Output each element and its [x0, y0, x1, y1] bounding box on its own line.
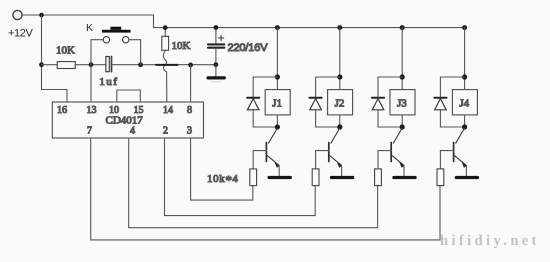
wire rail to relay J2 — [339, 28, 341, 90]
wire emitter Q1 down — [278, 166, 280, 176]
junction C2 top — [214, 25, 219, 30]
wire relay J4 to collector — [464, 115, 466, 127]
relay J2 — [328, 90, 353, 115]
transistor Q3 — [378, 129, 404, 168]
wire base Q3 to resistor — [377, 151, 379, 169]
svg-text:hifidiy.net: hifidiy.net — [440, 233, 540, 249]
svg-text:3: 3 — [187, 125, 192, 136]
junction collector Q2 — [337, 124, 342, 129]
wire relay J1 to collector — [276, 115, 278, 127]
switch K pushbutton — [91, 27, 141, 65]
wire diode D1 branch top — [253, 77, 277, 97]
resistor R2 10K pull-up — [162, 28, 169, 51]
junction C2 bottom — [214, 62, 219, 67]
wire pin3 routing — [191, 138, 253, 200]
transistor Q2 — [316, 129, 342, 168]
junction relay J1 top — [275, 74, 280, 79]
wire R1 to C1 — [75, 64, 106, 66]
relay J3 — [390, 90, 415, 115]
wire diode D4 branch bottom — [440, 110, 464, 127]
svg-text:CD4017: CD4017 — [106, 114, 144, 126]
ground Q4 — [456, 176, 477, 179]
junction collector Q1 — [275, 124, 280, 129]
resistor R5 10k — [375, 169, 382, 186]
wire base Q4 to resistor — [439, 151, 441, 169]
wire rail to relay J3 — [401, 28, 403, 90]
wire C2 to ground — [215, 65, 217, 77]
wire rail to relay J4 — [464, 28, 466, 90]
wire emitter Q4 down — [465, 166, 467, 176]
svg-text:15: 15 — [134, 105, 144, 116]
wire C1 right — [112, 64, 216, 66]
resistor R6 10k — [437, 169, 444, 186]
svg-text:220/16V: 220/16V — [228, 42, 269, 54]
relay driver cells — [247, 25, 477, 185]
resistor R4 10k — [312, 169, 319, 186]
wire relay J3 to collector — [401, 115, 403, 127]
op IC U1 CD4017 — [52, 102, 203, 138]
wire diode D1 branch bottom — [253, 110, 277, 127]
diode D3 — [372, 98, 384, 110]
diode D4 — [434, 98, 446, 110]
junction relay J3 top — [400, 74, 405, 79]
wire base Q2 to resistor — [315, 151, 317, 169]
terminal +12V — [13, 10, 22, 19]
svg-text:4: 4 — [130, 125, 135, 136]
wire R2 to pin14 wiggle — [163, 50, 166, 102]
wire pin7 routing — [91, 138, 440, 240]
junction button right node — [138, 62, 143, 67]
resistor R3 10k — [250, 169, 257, 186]
svg-text:8: 8 — [187, 105, 192, 116]
wire bold crossing segment — [156, 64, 178, 66]
junction relay J2 top — [337, 74, 342, 79]
junction pin8 node — [188, 63, 193, 68]
junction rail J4 — [462, 25, 467, 30]
svg-text:K: K — [86, 22, 93, 34]
ground Q3 — [394, 176, 415, 179]
resistor R1 10K — [57, 62, 75, 69]
wire pin8 — [190, 65, 192, 102]
svg-text:7: 7 — [87, 125, 92, 136]
capacitor C1 1uf — [106, 57, 112, 72]
svg-text:1uf: 1uf — [99, 76, 118, 88]
junction rail J1 — [275, 25, 280, 30]
wire diode D4 branch top — [440, 77, 464, 97]
junction R2 top — [163, 25, 168, 30]
junction collector Q3 — [400, 124, 405, 129]
svg-text:2: 2 — [163, 125, 168, 136]
wire diode D2 branch bottom — [316, 110, 340, 127]
wire main horizontal left — [42, 64, 58, 66]
diode D2 — [310, 98, 322, 110]
svg-text:J1: J1 — [272, 98, 282, 110]
junction rail J2 — [337, 25, 342, 30]
wire rail to relay J1 — [276, 28, 278, 90]
transistor Q1 — [253, 129, 279, 168]
wire pin4 routing — [129, 138, 378, 228]
svg-text:10K: 10K — [172, 40, 191, 52]
ground Q2 — [332, 176, 353, 179]
relay J4 — [452, 90, 477, 115]
wire left rail down — [42, 15, 68, 102]
wire diode D2 branch top — [316, 77, 340, 97]
wire pins 10-15 bridge — [117, 90, 141, 102]
ground Q1 — [269, 176, 290, 179]
wire +12V rail — [154, 27, 465, 29]
junction rail J3 — [400, 25, 405, 30]
transistor Q4 — [440, 129, 466, 168]
junction top-left — [39, 13, 44, 18]
junction pin13 node — [89, 62, 94, 67]
relay J1 — [265, 90, 290, 115]
wire relay J2 to collector — [339, 115, 341, 127]
junction relay J4 top — [462, 74, 467, 79]
capacitor C2 220/16V electrolytic — [208, 28, 224, 65]
diode D1 — [247, 98, 259, 110]
svg-text:14: 14 — [163, 105, 173, 116]
wire base Q1 to resistor — [252, 151, 254, 169]
svg-text:J3: J3 — [397, 98, 407, 110]
svg-text:J4: J4 — [459, 98, 469, 110]
svg-text:10: 10 — [109, 105, 119, 116]
wire pin13 — [90, 65, 92, 102]
wire diode D3 branch top — [378, 77, 402, 97]
svg-text:10K: 10K — [56, 45, 75, 57]
junction collector Q4 — [462, 124, 467, 129]
svg-text:16: 16 — [57, 105, 67, 116]
svg-text:13: 13 — [87, 105, 97, 116]
wire diode D3 branch bottom — [378, 110, 402, 127]
svg-text:J2: J2 — [335, 98, 345, 110]
wire emitter Q3 down — [403, 166, 405, 176]
wire emitter Q2 down — [341, 166, 343, 176]
wire top from terminal — [22, 15, 153, 28]
ground main — [208, 76, 224, 79]
svg-text:+12V: +12V — [8, 28, 33, 40]
wire pin2 routing — [165, 138, 316, 216]
junction left main — [39, 62, 44, 67]
